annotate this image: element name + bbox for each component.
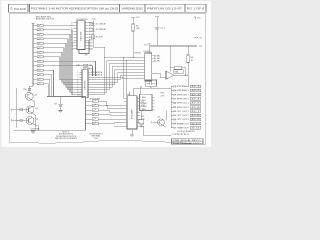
svg-text:R21: R21: [141, 102, 144, 104]
IC U1 pins: [74, 22, 78, 24]
svg-text:TIME MODL AL 4T4 D: TIME MODL AL 4T4 D: [173, 142, 202, 145]
resistor R2: [132, 24, 134, 31]
revision box: [172, 139, 204, 144]
op-amp U5A body: [166, 71, 174, 79]
wire U6 top pin B: [133, 88, 135, 96]
title bar logo box: [9, 4, 29, 12]
transistor Q2: [26, 106, 34, 114]
IC U2 pins: [80, 71, 83, 73]
svg-text:R9 10K: R9 10K: [135, 53, 142, 55]
svg-text:A0 SEL: A0 SEL: [154, 55, 160, 58]
wire Q4 collector: [165, 111, 167, 121]
svg-text:AD9: AD9: [89, 47, 93, 50]
connector arc Q2: [10, 109, 13, 112]
svg-text:R5 4.7K: R5 4.7K: [96, 36, 104, 38]
wire bus U2 to U3: [91, 58, 144, 95]
svg-text:J2-8: J2-8: [191, 115, 200, 117]
svg-text:LOGIC GND: LOGIC GND: [30, 128, 40, 130]
svg-text:6: 6: [71, 31, 72, 33]
wire diode column: [92, 20, 94, 47]
svg-text:R30: R30: [161, 92, 164, 94]
svg-text:MC14489: MC14489: [132, 109, 134, 119]
ground C8: [59, 110, 63, 112]
wire Q2 emitter: [32, 113, 36, 131]
diode D1: [92, 23, 95, 25]
svg-text:MTR ENBL 1: MTR ENBL 1: [177, 86, 189, 88]
svg-text:MTR CLK 2: MTR CLK 2: [177, 107, 189, 109]
svg-text:MTR DIR 1: MTR DIR 1: [177, 94, 189, 96]
wire C8 top: [60, 97, 62, 105]
ground symbol run: [31, 130, 35, 132]
wire C8 bottom: [60, 106, 62, 110]
switch box B body: [140, 94, 153, 110]
wire U1 pin1 to diode column: [89, 22, 94, 24]
wire U2 bottom pin: [84, 97, 86, 98]
svg-text:J2-5: J2-5: [191, 103, 200, 105]
svg-text:VCC: VCC: [199, 46, 204, 48]
svg-text:D2 1N4148: D2 1N4148: [96, 29, 106, 31]
VCC rail wire: [150, 45, 197, 47]
component below box B: [139, 120, 144, 124]
svg-text:11: 11: [71, 46, 73, 48]
svg-text:D1 1N4148: D1 1N4148: [96, 24, 106, 26]
svg-text:U3 4051: U3 4051: [144, 51, 151, 53]
wire crystal bottom: [150, 86, 152, 88]
op-amp U5A label box: [174, 70, 184, 73]
svg-text:1 MIN: 1 MIN: [140, 109, 146, 111]
svg-text:PULSAR: PULSAR: [14, 7, 27, 11]
title bar main title box: [30, 4, 120, 12]
wire Q1 base feed: [29, 86, 33, 92]
svg-text:J2-4: J2-4: [191, 98, 200, 100]
svg-text:SEE TBL A PG 2 FOR ADRS: SEE TBL A PG 2 FOR ADRS: [55, 137, 78, 140]
svg-text:MTR ADRS B: MTR ADRS B: [91, 74, 103, 77]
DIP switch SW1 rows: [33, 24, 37, 26]
capacitor C5: [155, 26, 160, 28]
svg-text:1 SEC: 1 SEC: [140, 97, 146, 99]
svg-text:PM’R’UN 03-13-97: PM’R’UN 03-13-97: [147, 7, 183, 11]
svg-text:J2-1: J2-1: [191, 86, 200, 88]
svg-text:J2-6: J2-6: [191, 107, 200, 109]
IC U3 pins: [143, 57, 145, 59]
resistor RP1: [84, 64, 88, 66]
title bar page box: [185, 4, 206, 12]
svg-text:MTR DIR 2: MTR DIR 2: [177, 98, 189, 100]
wire bus 88: [134, 87, 172, 89]
wire op-amp output: [174, 74, 188, 76]
resistor R5: [92, 35, 94, 39]
DIP switch SW2 rows: [85, 100, 86, 101]
IC U6 pin stubs: [124, 97, 127, 99]
svg-text:J2-10: J2-10: [191, 123, 200, 125]
VCC flag top right: [194, 17, 196, 20]
capacitor C8: [58, 103, 63, 105]
connector flag rows: [171, 85, 174, 87]
svg-text:A1 SEL: A1 SEL: [154, 57, 160, 60]
svg-text:PWB 4094-AL REV D: PWB 4094-AL REV D: [173, 139, 202, 142]
svg-text:VCC: VCC: [144, 44, 149, 46]
wire flag riser: [170, 86, 172, 127]
wire output drop to flags: [187, 75, 189, 86]
svg-text:Q1: Q1: [35, 94, 38, 96]
IC U2 body: [82, 70, 88, 98]
svg-text:10: 10: [77, 95, 79, 97]
left bus wire: [16, 88, 18, 128]
wire lower horizontal: [47, 96, 86, 98]
switch bus VCC tick: [32, 22, 35, 24]
svg-text:MTR CLK 1: MTR CLK 1: [177, 103, 189, 105]
ground run wire: [14, 129, 86, 131]
svg-text:SPARE OUT: SPARE OUT: [177, 122, 189, 125]
IC U1 body: [77, 21, 85, 50]
svg-text:R22: R22: [141, 116, 144, 118]
wire U6 row9 left: [114, 125, 124, 127]
drawing border frame: [9, 14, 205, 145]
svg-text:74HC595: 74HC595: [84, 80, 86, 90]
ground U6: [130, 133, 134, 135]
wire Q4 emitter: [162, 125, 165, 128]
svg-text:OPTION SW: OPTION SW: [89, 99, 100, 101]
svg-text:C8: C8: [54, 103, 56, 105]
svg-text:PG 1 OF 8: PG 1 OF 8: [187, 7, 205, 11]
transistor Q1: [25, 92, 33, 100]
wire band tap 2: [126, 61, 129, 102]
svg-text:J2-9: J2-9: [191, 119, 200, 121]
wire U1 bottom loop: [79, 40, 89, 53]
svg-text:L-OUT 4-PIN MOLEX: L-OUT 4-PIN MOLEX: [177, 131, 195, 133]
svg-text:J2-3: J2-3: [191, 94, 200, 96]
svg-text:VCC: VCC: [92, 19, 97, 21]
resistor R15: [28, 88, 31, 90]
svg-text:J2-2: J2-2: [191, 90, 200, 92]
VCC flag mid right: [194, 37, 199, 39]
wire R2 top: [132, 17, 134, 24]
svg-text:R15: R15: [23, 89, 26, 91]
wire C5 top: [156, 17, 158, 28]
svg-text:TIME OUT: TIME OUT: [177, 127, 189, 129]
transistor Q4: [158, 119, 165, 126]
svg-text:AD6: AD6: [89, 39, 93, 42]
svg-text:74HC165: 74HC165: [81, 31, 83, 41]
wire rail drop opamp: [169, 46, 171, 71]
wire R3 bottom: [187, 63, 189, 76]
svg-text:5: 5: [71, 28, 72, 30]
svg-text:9: 9: [71, 40, 72, 42]
wire box B bottom: [141, 111, 143, 120]
wire C5 bottom: [156, 29, 158, 46]
svg-text:PG 3: PG 3: [94, 138, 98, 140]
svg-text:AD7: AD7: [89, 42, 93, 45]
diode D2: [92, 29, 95, 31]
svg-text:7: 7: [71, 34, 72, 36]
wire bus to box B: [140, 88, 142, 94]
svg-text:VCC: VCC: [197, 17, 202, 19]
svg-text:ADRS SEL TBL PG2: ADRS SEL TBL PG2: [36, 18, 54, 21]
transistor Q3: [26, 117, 34, 125]
svg-text:3: 3: [71, 22, 72, 24]
wire diode column hook: [93, 47, 105, 57]
wire Q4 base: [153, 121, 160, 123]
crystal X1 box: [145, 80, 156, 86]
svg-text:Q2: Q2: [35, 108, 38, 110]
svg-text:Q3: Q3: [35, 119, 38, 121]
wire rail drop R3: [187, 46, 189, 55]
switch bus wire: [32, 23, 34, 86]
wire U6 row9 right: [137, 126, 172, 135]
wire U6 bottom: [131, 129, 133, 134]
svg-text:AD8: AD8: [89, 45, 93, 48]
svg-text:A2 SEL: A2 SEL: [154, 60, 160, 63]
svg-text:OPT OUT 3: OPT OUT 3: [177, 119, 189, 121]
title bar drawing file box: [120, 4, 146, 12]
title bar date box: [145, 4, 185, 12]
svg-text:VCC: VCC: [136, 17, 141, 19]
resistor R3: [187, 55, 189, 63]
wire U3 to op-amp minus: [152, 73, 166, 78]
svg-text:VARDM8.DSG: VARDM8.DSG: [122, 7, 144, 11]
wire Q1 emitter: [31, 99, 35, 106]
resistor R4 feedback: [174, 66, 182, 69]
wire band tap 1: [123, 58, 126, 99]
svg-text:C5 .1: C5 .1: [160, 28, 165, 30]
VCC tick C5: [155, 16, 159, 18]
ground below box B: [139, 124, 143, 126]
page background: [0, 0, 213, 150]
svg-text:OPT OUT 1: OPT OUT 1: [177, 111, 189, 113]
svg-text:8: 8: [71, 37, 72, 39]
svg-text:J2-11: J2-11: [191, 127, 200, 129]
wire staircase SW1 routing: [46, 24, 74, 26]
IC U6 body: [127, 96, 137, 129]
wire Q3 emitter: [32, 124, 39, 131]
svg-text:10: 10: [71, 43, 73, 45]
resistor RP2: [83, 68, 87, 70]
svg-text:RP1: RP1: [77, 65, 81, 67]
svg-text:J2-7: J2-7: [191, 111, 200, 113]
ground U1 loop: [85, 53, 88, 55]
svg-text:PS2784B-1 1-40 MOTOR ADDRESS/O: PS2784B-1 1-40 MOTOR ADDRESS/OPTION SW (…: [31, 7, 118, 11]
wire U6 top pin A: [129, 91, 131, 95]
VCC tick R2: [131, 16, 135, 18]
connector arc Q3: [10, 119, 13, 122]
wire U3 top pin: [148, 44, 150, 54]
svg-text:OPT OUT 2: OPT OUT 2: [177, 115, 189, 117]
IC U3 body: [145, 53, 152, 81]
svg-text:12: 12: [71, 48, 73, 50]
wire R2 bottom: [132, 31, 134, 58]
option bus wire: [85, 97, 87, 130]
svg-text:TO MTR DRV BD J2: TO MTR DRV BD J2: [172, 134, 189, 136]
svg-text:MTR ENBL 2: MTR ENBL 2: [177, 90, 189, 92]
